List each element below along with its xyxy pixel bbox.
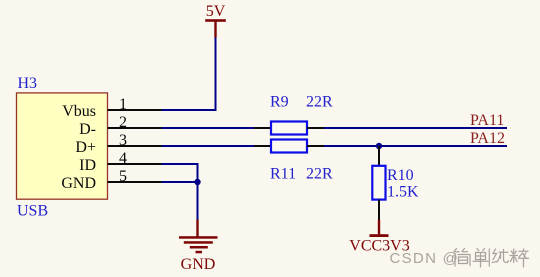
char jian bbox=[454, 249, 470, 267]
svg-text:PA12: PA12 bbox=[470, 130, 505, 147]
ground symbol GND bbox=[179, 220, 218, 274]
svg-text:R11: R11 bbox=[270, 166, 296, 183]
svg-text:3: 3 bbox=[119, 132, 127, 149]
power symbol VCC3V3 bbox=[349, 220, 409, 255]
wire R11 to PA12 bbox=[324, 145, 507, 147]
wire pin5 to junction bbox=[162, 181, 198, 183]
wire pin1 to 5V bbox=[162, 37, 216, 110]
part name USB bbox=[17, 202, 48, 219]
svg-text:PA11: PA11 bbox=[470, 112, 504, 129]
svg-text:1: 1 bbox=[119, 96, 127, 113]
svg-text:GND: GND bbox=[181, 256, 216, 273]
wire junction to ground bbox=[197, 182, 199, 220]
power symbol 5V bbox=[205, 3, 226, 38]
wire pin3 to R11 bbox=[162, 145, 255, 147]
pin 3 D+ bbox=[75, 132, 161, 156]
svg-text:2: 2 bbox=[119, 114, 127, 131]
svg-text:5: 5 bbox=[119, 168, 127, 185]
svg-text:GND: GND bbox=[61, 175, 96, 192]
resistor R10 bbox=[372, 146, 385, 220]
svg-text:R10: R10 bbox=[387, 167, 414, 184]
svg-text:ID: ID bbox=[79, 157, 96, 174]
char dan bbox=[473, 249, 488, 268]
resistor R11 bbox=[254, 140, 324, 153]
char chun bbox=[492, 249, 508, 263]
wire pin2 to R9 bbox=[162, 127, 255, 129]
pipe separator bbox=[488, 249, 490, 266]
watermark CSDN bbox=[390, 250, 460, 267]
svg-text:USB: USB bbox=[17, 202, 48, 219]
designator H3 bbox=[18, 75, 38, 92]
watermark chinese glyphs bbox=[454, 249, 529, 268]
R10 designator bbox=[387, 167, 414, 184]
svg-text:5V: 5V bbox=[206, 3, 226, 20]
svg-text:CSDN @: CSDN @ bbox=[390, 250, 460, 267]
pin 4 ID bbox=[79, 150, 161, 174]
char cui bbox=[510, 249, 529, 267]
svg-text:22R: 22R bbox=[306, 166, 333, 183]
pin 5 GND bbox=[61, 168, 161, 192]
svg-text:1.5K: 1.5K bbox=[387, 184, 419, 201]
net label PA12 bbox=[470, 130, 505, 147]
pin 1 Vbus bbox=[62, 96, 161, 120]
junction D+ net / R10 bbox=[376, 143, 382, 149]
R9 value 22R bbox=[306, 94, 333, 111]
connector H3 body bbox=[17, 93, 108, 199]
junction pins 4/5 bbox=[194, 179, 200, 185]
net label PA11 bbox=[470, 112, 504, 129]
svg-text:H3: H3 bbox=[18, 75, 38, 92]
svg-text:Vbus: Vbus bbox=[62, 103, 96, 120]
svg-text:22R: 22R bbox=[306, 94, 333, 111]
svg-text:D+: D+ bbox=[75, 139, 96, 156]
R11 designator bbox=[270, 166, 296, 183]
svg-text:D-: D- bbox=[79, 121, 96, 138]
svg-text:4: 4 bbox=[119, 150, 127, 167]
R11 value 22R bbox=[306, 166, 333, 183]
resistor R9 bbox=[254, 122, 324, 135]
R10 value 1.5K bbox=[387, 184, 419, 201]
svg-text:R9: R9 bbox=[270, 94, 289, 111]
pin 2 D- bbox=[79, 114, 161, 138]
wire R9 to PA11 bbox=[324, 127, 507, 129]
wire pin4 to junction bbox=[162, 164, 198, 182]
R9 designator bbox=[270, 94, 289, 111]
